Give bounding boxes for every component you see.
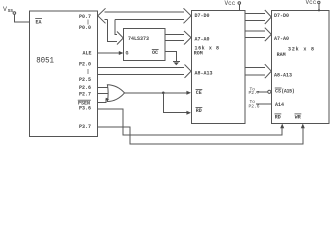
svg-text:D7-D0: D7-D0 xyxy=(195,13,210,19)
svg-text:Vcc: Vcc xyxy=(306,0,317,6)
wire To P2.6 to A14 xyxy=(256,103,272,105)
wire PSEN to gate xyxy=(98,99,108,102)
pin CS(A15) (RAM) xyxy=(275,88,295,94)
wire junction to ROM RD xyxy=(163,93,191,115)
svg-text:A14: A14 xyxy=(275,102,284,108)
svg-text:Vcc: Vcc xyxy=(225,0,236,7)
bus branch to latch xyxy=(108,20,124,45)
label 32k x 8 RAM xyxy=(277,46,314,58)
pin RD (RAM) xyxy=(275,114,282,120)
pin EA xyxy=(35,19,42,26)
svg-text:A8-A13: A8-A13 xyxy=(274,72,292,78)
wire P2.6 to gate xyxy=(98,87,108,89)
junction dot xyxy=(162,92,165,95)
svg-text:P0.0: P0.0 xyxy=(79,25,91,31)
wire Vcc to ROM xyxy=(238,4,240,10)
svg-text:ROM: ROM xyxy=(194,51,203,57)
svg-text:|: | xyxy=(87,69,90,75)
svg-text:WR: WR xyxy=(295,114,301,120)
node To P2.7 label xyxy=(249,87,260,96)
svg-text:P2.0: P2.0 xyxy=(79,62,91,68)
pin CE (ROM) xyxy=(196,90,203,97)
svg-text:P2.7: P2.7 xyxy=(79,91,91,97)
label 16k x 8 ROM xyxy=(194,46,219,57)
IC RAM xyxy=(272,10,330,123)
svg-text:ALE: ALE xyxy=(83,51,92,57)
svg-text:SS: SS xyxy=(8,9,14,14)
svg-text:OC: OC xyxy=(152,50,158,56)
bus P2.0-P2.5 to ROM A8-A13 xyxy=(98,65,192,78)
node Vcc (ROM) xyxy=(225,0,241,7)
svg-text:G: G xyxy=(126,50,129,56)
svg-text:D7-D0: D7-D0 xyxy=(274,13,289,19)
gate OR G1 xyxy=(106,85,125,102)
latch 74LS373 xyxy=(124,28,166,60)
wire To P2.7 to CS bubble xyxy=(256,91,268,93)
svg-text:8051: 8051 xyxy=(36,56,54,65)
wire gate output to ROM CE xyxy=(125,91,192,95)
pin PSEN xyxy=(78,100,91,106)
svg-text:(A15): (A15) xyxy=(281,88,295,94)
wire P3.7 to RAM WR xyxy=(98,124,305,144)
ground symbol xyxy=(173,61,180,65)
wire ALE to G xyxy=(98,51,124,55)
svg-text:RD: RD xyxy=(275,114,281,120)
bus latch to ROM A7-A0 xyxy=(165,31,191,45)
wire Vcc to RAM xyxy=(318,4,320,12)
bubble on CS xyxy=(268,90,271,93)
node To P2.6 label xyxy=(249,99,260,109)
wire OC to ground xyxy=(165,51,176,61)
node Vcc (RAM) xyxy=(306,0,320,6)
IC 8051 U1 xyxy=(30,11,98,137)
svg-text:P2.7: P2.7 xyxy=(249,90,260,96)
bus ROM to RAM A7-A0 xyxy=(245,28,271,41)
pin RD (ROM) xyxy=(196,107,203,114)
svg-text:P3.7: P3.7 xyxy=(79,124,91,130)
svg-text:EA: EA xyxy=(36,20,42,26)
svg-text:RD: RD xyxy=(196,108,202,114)
svg-text:RAM: RAM xyxy=(277,52,286,58)
svg-text:A7-A0: A7-A0 xyxy=(195,36,210,42)
svg-text:74LS373: 74LS373 xyxy=(128,36,149,42)
svg-text:V: V xyxy=(3,6,7,13)
svg-text:P2.5: P2.5 xyxy=(79,77,91,83)
svg-text:32k x 8: 32k x 8 xyxy=(288,46,314,52)
pin WR (RAM) xyxy=(295,114,302,120)
wire P2.7 to gate xyxy=(98,92,108,94)
pin OC xyxy=(152,49,159,55)
bus ROM to RAM D7-D0 xyxy=(245,10,271,24)
svg-text:CS: CS xyxy=(275,88,281,94)
IC ROM xyxy=(191,11,245,124)
wire Vss to EA xyxy=(14,14,29,22)
svg-text:A7-A0: A7-A0 xyxy=(274,36,289,42)
node Vss label xyxy=(3,6,16,14)
wire P3.6 to RAM RD xyxy=(98,109,285,135)
bus P0 to ROM D7-D0 xyxy=(98,8,191,23)
svg-text:CE: CE xyxy=(196,90,202,96)
bus ROM to RAM A8-A13 xyxy=(245,64,271,78)
svg-text:P2.6: P2.6 xyxy=(79,85,91,91)
svg-text:A8-A13: A8-A13 xyxy=(195,70,213,76)
svg-text:P3.6: P3.6 xyxy=(79,106,91,112)
